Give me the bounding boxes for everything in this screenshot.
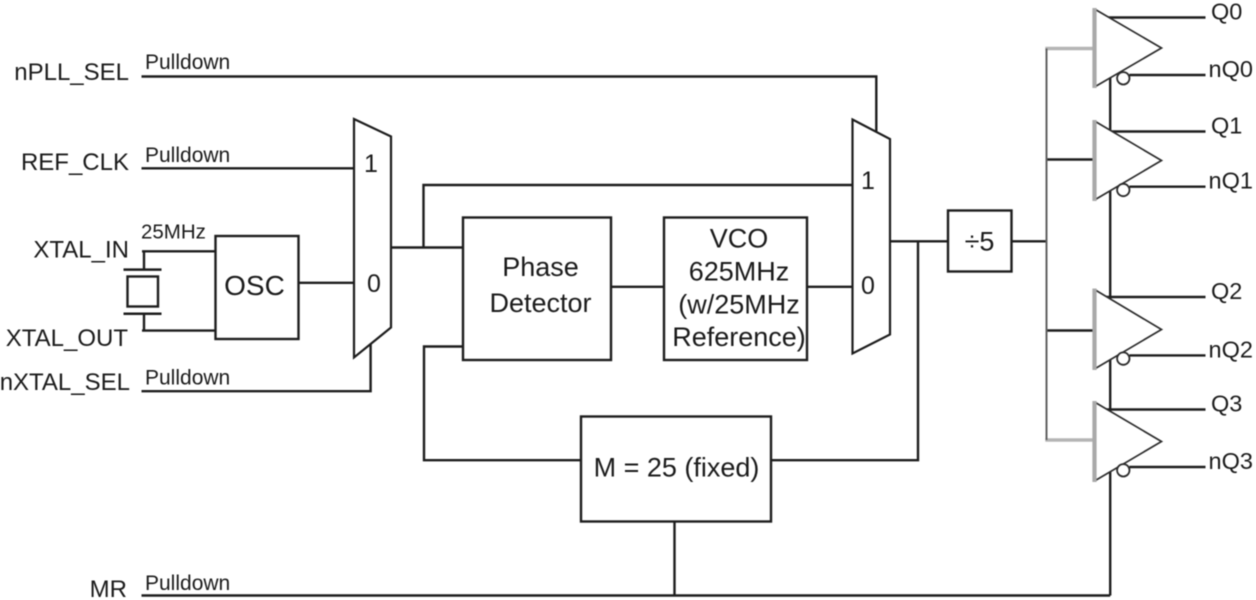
svg-text:XTAL_IN: XTAL_IN: [33, 237, 129, 264]
wire Q2 output: [1106, 296, 1206, 298]
wire mux2 output to divider: [890, 240, 947, 242]
inversion bubble nQ0: [1117, 72, 1129, 84]
svg-text:1: 1: [364, 150, 378, 178]
wire M divider output to Phase Detector feedback input: [424, 347, 580, 461]
wire mux1 output branch to mux2 input 1: [424, 185, 853, 248]
wire bus to buffer Q2 input: [1047, 329, 1095, 331]
svg-text:Pulldown: Pulldown: [145, 572, 230, 595]
wire nQ1 output: [1130, 185, 1206, 187]
svg-text:nQ0: nQ0: [1209, 56, 1253, 82]
svg-text:25MHz: 25MHz: [141, 221, 206, 244]
wire bus to buffer Q1 input: [1047, 158, 1095, 160]
svg-text:REF_CLK: REF_CLK: [21, 149, 129, 176]
svg-text:MR: MR: [90, 576, 127, 600]
wire nXTAL_SEL to mux1 select: [142, 345, 371, 392]
wire bus to buffer Q0 input: [1045, 47, 1094, 51]
wire Q3 output: [1106, 408, 1206, 410]
wire Q1 output: [1106, 130, 1206, 132]
svg-text:Detector: Detector: [489, 288, 591, 318]
svg-text:nQ2: nQ2: [1209, 336, 1253, 362]
svg-text:Q1: Q1: [1211, 113, 1242, 139]
wire bus to buffer Q3 input: [1045, 438, 1094, 442]
wire MR vertical riser through buffers: [1109, 18, 1111, 596]
crystal X1 body: [128, 277, 159, 307]
node fanout bus vertical: [1046, 49, 1048, 441]
svg-text:Q3: Q3: [1211, 391, 1242, 417]
buffer Q2: [1095, 289, 1162, 371]
wire nQ2 output: [1130, 354, 1206, 356]
svg-text:Pulldown: Pulldown: [145, 367, 230, 390]
wire XTAL_OUT to crystal bottom plate: [143, 314, 145, 331]
wire MR line: [142, 594, 1111, 596]
svg-text:Phase: Phase: [502, 252, 579, 282]
inversion bubble nQ3: [1117, 464, 1129, 476]
inversion bubble nQ1: [1117, 184, 1129, 196]
block OSC: [216, 236, 299, 339]
buffer Q3: [1095, 401, 1162, 482]
wire VCO to mux2 input 0: [807, 286, 852, 288]
wire XTAL_OUT to OSC: [142, 329, 215, 331]
wire XTAL_IN to crystal top plate: [143, 251, 145, 269]
mux1 reference select: [354, 119, 391, 358]
wire M divider bottom to MR line: [673, 521, 675, 596]
crystal X1 top plate: [124, 268, 162, 271]
svg-text:nQ1: nQ1: [1209, 168, 1253, 194]
svg-text:Q0: Q0: [1211, 0, 1242, 25]
svg-text:Pulldown: Pulldown: [145, 51, 230, 74]
svg-text:nQ3: nQ3: [1209, 448, 1253, 474]
svg-text:Pulldown: Pulldown: [145, 144, 230, 167]
svg-text:VCO: VCO: [710, 224, 769, 254]
svg-text:625MHz: 625MHz: [689, 257, 790, 287]
svg-text:XTAL_OUT: XTAL_OUT: [6, 325, 129, 352]
block VCO: [664, 218, 807, 361]
svg-text:÷5: ÷5: [965, 227, 995, 257]
svg-text:M = 25 (fixed): M = 25 (fixed): [594, 453, 760, 483]
svg-text:nXTAL_SEL: nXTAL_SEL: [0, 369, 130, 396]
wire Q0 output: [1106, 16, 1206, 18]
svg-text:0: 0: [367, 270, 381, 298]
buffer Q1: [1095, 120, 1162, 201]
svg-text:OSC: OSC: [224, 270, 285, 301]
block M = 25 feedback divider: [581, 417, 771, 522]
svg-text:Q2: Q2: [1211, 278, 1242, 304]
block divide-by-5: [948, 211, 1012, 272]
wire REF_CLK to mux1 input 1: [142, 167, 354, 169]
crystal X1 bottom plate: [124, 312, 162, 315]
wire Phase Detector to VCO: [611, 286, 664, 288]
svg-text:1: 1: [861, 167, 875, 195]
svg-text:Reference): Reference): [672, 322, 806, 352]
wire divider output to fanout bus: [1011, 240, 1047, 242]
svg-text:0: 0: [861, 272, 875, 300]
svg-text:(w/25MHz: (w/25MHz: [678, 290, 800, 320]
svg-text:nPLL_SEL: nPLL_SEL: [14, 59, 129, 86]
block Phase Detector: [463, 218, 611, 361]
buffer Q0: [1095, 8, 1162, 88]
wire feedback from mux2 output down to M divider: [772, 241, 918, 460]
wire XTAL_IN to OSC: [142, 250, 215, 252]
wire nQ3 output: [1130, 466, 1206, 468]
inversion bubble nQ2: [1117, 352, 1129, 364]
wire mux1 output to Phase Detector: [391, 246, 462, 248]
wire OSC output to mux1 input 0: [298, 282, 353, 284]
wire nPLL_SEL to mux2 select: [142, 77, 877, 133]
wire nQ0 output: [1130, 74, 1206, 76]
mux2 PLL bypass select: [853, 120, 891, 354]
